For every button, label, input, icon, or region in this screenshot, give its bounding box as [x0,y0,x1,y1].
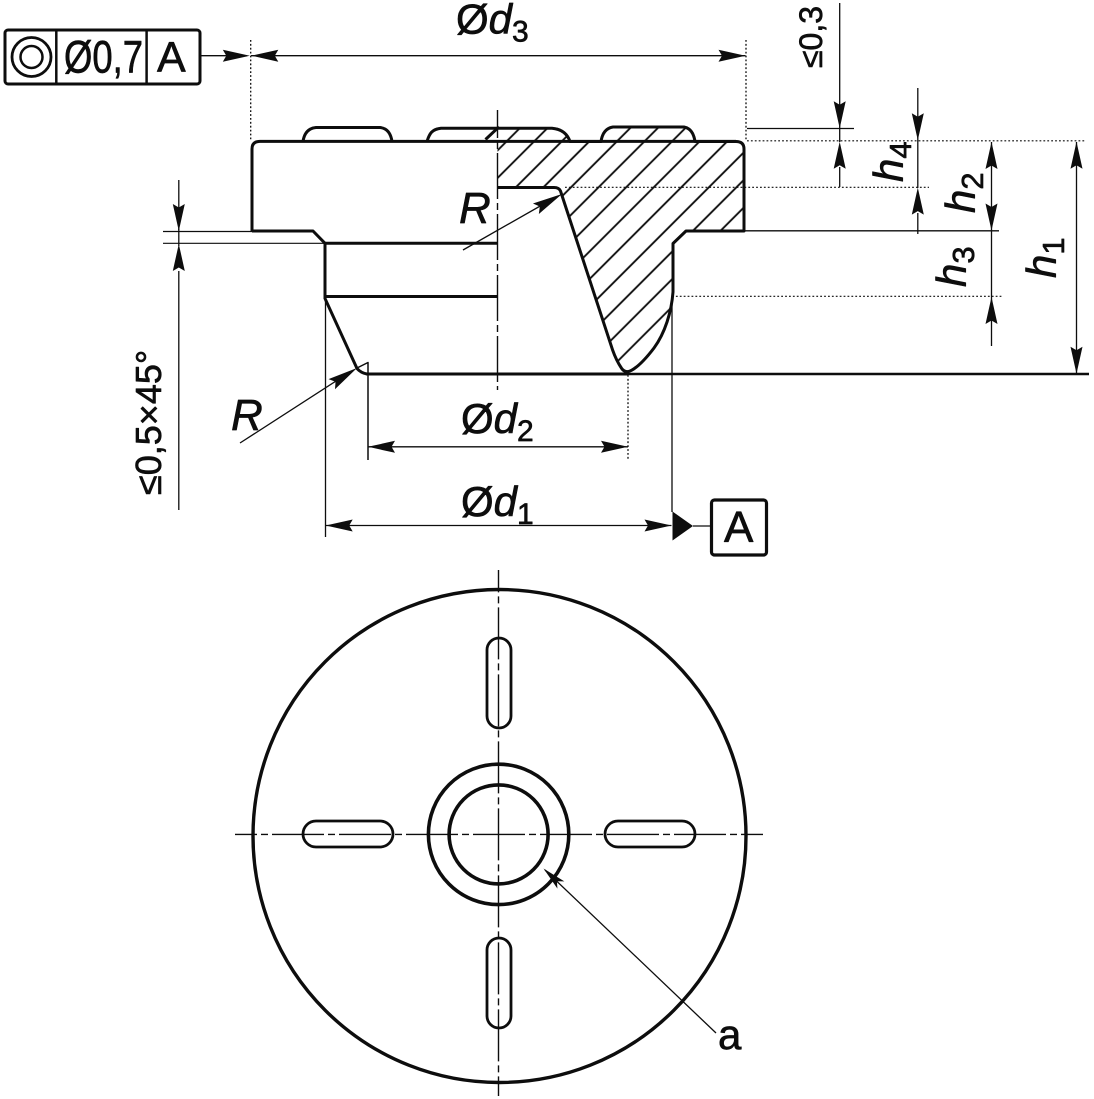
svg-text:h4: h4 [865,141,918,182]
section outline right half [498,127,745,372]
svg-text:≤0,5×45°: ≤0,5×45° [128,350,169,495]
slot north [487,638,511,728]
dim h2 h3 line [991,142,993,346]
FCF leader [200,55,247,57]
svg-text:A: A [724,503,754,552]
dim Od3 right arrow [719,50,746,62]
svg-text:Ød2: Ød2 [461,395,534,448]
leader a [545,870,716,1033]
svg-text:Ø0,7: Ø0,7 [64,32,143,83]
datum triangle [673,512,694,541]
cone top extension [672,295,1003,297]
d2 right extension [627,375,629,460]
bottom extension to h1 [628,373,1089,376]
chamfer left [325,299,367,375]
chamfer dim extension lines [163,231,252,233]
flange top line [260,140,736,143]
le 0,3 dimension line [839,3,841,142]
dim h4 [917,88,919,188]
concentricity symbol [12,38,51,77]
rib top extension [747,128,854,130]
top view hole circle [449,785,548,884]
rib bump 1 [303,128,392,142]
flange left edge [252,141,260,231]
FCF leader arrow [223,50,250,62]
datum A box [712,500,767,555]
part bottom edge [366,373,628,376]
R leader upper [463,197,556,250]
edge break tick + d2 left extension [357,363,368,461]
feature control frame [5,30,200,84]
svg-text:R: R [459,184,491,233]
hole top extension [565,186,929,188]
cone top edge [325,295,498,298]
dim h1 [1076,142,1078,374]
boss left edge [324,243,327,299]
section centerline [497,110,499,390]
svg-text:a: a [718,1011,742,1058]
boss bump 2 left part [427,128,498,141]
svg-text:h2: h2 [937,172,990,213]
top view horizontal centerline [235,833,763,835]
svg-text:Ød1: Ød1 [461,478,534,531]
slot west [303,821,393,847]
svg-text:h3: h3 [928,246,981,287]
top view vertical centerline [498,570,500,1096]
hatch tick at centerline [486,127,500,140]
flange top extension [747,140,1085,142]
slot east [605,821,695,847]
section hatched area [498,127,745,372]
flange bottom left [252,231,325,243]
Od3 extension right [745,40,747,140]
top view boss ring outer [428,764,568,904]
slot south [487,938,511,1028]
svg-text:h1: h1 [1018,237,1071,278]
lip bottom edge [325,242,498,245]
svg-text:Ød3: Ød3 [456,0,529,49]
d1 right extension [671,298,673,512]
dim Od3 line [251,55,746,57]
R leader lower [240,372,350,443]
dim Od2 [368,446,628,448]
top view outer circle [253,590,746,1083]
Od3 extension left [250,40,252,140]
svg-text:R: R [231,391,263,440]
d1 left extension [325,301,327,537]
svg-text:A: A [157,34,186,82]
dim Od1 [326,525,672,527]
chamfer dim line [178,180,180,230]
svg-text:≤0,3: ≤0,3 [793,6,829,68]
flange bottom extension [744,230,999,232]
dim Od3 left arrow [251,50,278,62]
